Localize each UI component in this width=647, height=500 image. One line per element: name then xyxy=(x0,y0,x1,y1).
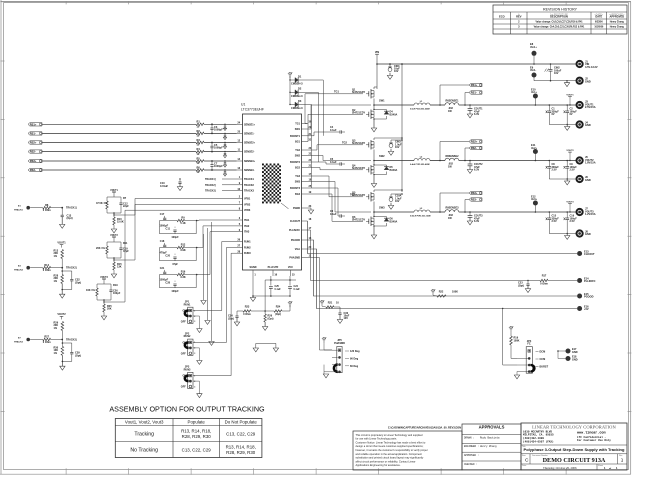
node flag RS2- xyxy=(28,150,42,153)
svg-text:6/23/06: 6/23/06 xyxy=(595,22,603,24)
svg-text:BG2: BG2 xyxy=(295,167,301,170)
svg-text:GND: GND xyxy=(585,123,591,127)
svg-text:1W: 1W xyxy=(448,110,452,113)
svg-text:0.1uF: 0.1uF xyxy=(330,161,337,164)
svg-text:www.linear.com: www.linear.com xyxy=(577,430,606,435)
svg-text:Vout1, Vout2, Vout3: Vout1, Vout2, Vout3 xyxy=(125,420,164,425)
svg-text:C:\CAD\WIN\CAPTURE\ARCHIVE\913: C:\CAD\WIN\CAPTURE\ARCHIVE\913A\913A_00_… xyxy=(388,426,461,430)
wire SW2 xyxy=(308,156,372,161)
svg-text:6.3V: 6.3V xyxy=(474,220,479,223)
turret E15 PGOOD xyxy=(577,294,582,299)
svg-text:however, it remains the custom: however, it remains the customer's respo… xyxy=(356,448,428,452)
node flag TRACK1 xyxy=(222,178,237,180)
svg-text:100pF: 100pF xyxy=(113,292,121,295)
title block disclaimer box xyxy=(353,431,462,470)
ground below Q6 xyxy=(373,226,375,235)
svg-text:D1: D1 xyxy=(298,74,302,78)
svg-text:Applications Engineering for a: Applications Engineering for assistance. xyxy=(356,463,401,467)
svg-text:0.1uF: 0.1uF xyxy=(294,288,301,291)
svg-text:2.5V: 2.5V xyxy=(552,220,557,223)
svg-text:R21: R21 xyxy=(328,301,333,304)
wire +5V to E16 xyxy=(308,249,578,309)
border frame outer xyxy=(0,0,2,474)
svg-text:0 Ohm: 0 Ohm xyxy=(43,340,52,344)
wire +5V line to JP4 xyxy=(503,309,517,366)
svg-text:1000pF: 1000pF xyxy=(214,127,223,131)
ground PGND xyxy=(308,210,313,214)
svg-text:+5V: +5V xyxy=(431,288,436,292)
svg-text:R19: R19 xyxy=(113,284,118,287)
resistor R26 (Opt) xyxy=(264,311,266,314)
wire sense bus RS1+ xyxy=(42,123,196,125)
svg-text:2.5V: 2.5V xyxy=(570,220,575,223)
svg-text:20K 1%: 20K 1% xyxy=(96,247,106,250)
svg-text:TRACK1: TRACK1 xyxy=(244,178,255,181)
wire GND row ch1 input xyxy=(534,80,577,82)
svg-text:Rev: Rev xyxy=(619,455,622,457)
svg-text:3.9K: 3.9K xyxy=(180,249,185,252)
svg-text:affect circuit performance or: affect circuit performance or reliabilit… xyxy=(356,459,416,463)
svg-text:VCC: VCC xyxy=(288,266,293,269)
revision history table xyxy=(493,5,627,34)
svg-text:Si4721ADY: Si4721ADY xyxy=(352,194,366,197)
wire output gnd row ch3 xyxy=(549,233,577,235)
svg-text:PLLIN/FC: PLLIN/FC xyxy=(289,229,300,232)
svg-text:(Opt): (Opt) xyxy=(75,353,81,357)
svg-text:0 Ohm: 0 Ohm xyxy=(43,208,52,212)
svg-text:ASSEMBLY OPTION FOR OUTPUT TRA: ASSEMBLY OPTION FOR OUTPUT TRACKING xyxy=(109,404,265,413)
capacitor C24 0.1uF xyxy=(288,286,292,288)
wire output gnd row ch2 xyxy=(549,178,577,180)
svg-text:+5V: +5V xyxy=(584,307,589,311)
resistor R8SENSE2 sense ch2 xyxy=(430,160,445,162)
wire sense bus RS3- xyxy=(42,169,196,171)
svg-text:VOUT2: VOUT2 xyxy=(566,150,574,152)
capacitor C30 10uF 10V xyxy=(334,306,340,308)
svg-text:FC: FC xyxy=(527,343,531,346)
svg-text:+5V: +5V xyxy=(509,325,514,329)
svg-text:Si4721CDY: Si4721CDY xyxy=(352,167,366,170)
svg-text:Vin1+: Vin1+ xyxy=(530,45,537,49)
svg-text:R28, R29, R30: R28, R29, R30 xyxy=(226,450,256,455)
svg-text:B340A: B340A xyxy=(390,220,398,223)
svg-text:R27: R27 xyxy=(44,335,49,339)
turret E9 Vin1- xyxy=(532,73,537,78)
svg-text:VOUT2: VOUT2 xyxy=(57,313,66,316)
svg-text:PHASMD: PHASMD xyxy=(334,342,345,345)
jack J1 VIN xyxy=(577,61,583,67)
svg-text:10K 1%: 10K 1% xyxy=(86,289,96,292)
jack J3 VOUT1 xyxy=(577,102,583,108)
jack J6 GND xyxy=(577,176,583,182)
svg-text:3: 3 xyxy=(194,353,195,355)
svg-text:RS1-: RS1- xyxy=(471,91,477,95)
svg-text:C13, C22, C29: C13, C22, C29 xyxy=(182,448,212,453)
diode D4 B340A ch1 xyxy=(386,110,388,112)
wire SW2 node xyxy=(373,150,375,161)
resistor R1 10 xyxy=(196,123,204,126)
label JP5 positions xyxy=(345,350,349,352)
svg-text:ECO: ECO xyxy=(499,14,505,18)
svg-text:1W: 1W xyxy=(448,217,452,220)
svg-text:2.5V/15A: 2.5V/15A xyxy=(585,105,596,109)
wire kelvin RS2- flag xyxy=(465,148,469,161)
svg-text:120 Deg: 120 Deg xyxy=(350,350,360,353)
ground below Q2 xyxy=(373,119,375,128)
turret E13 CLKOUT xyxy=(577,251,582,256)
svg-text:R16: R16 xyxy=(181,270,186,273)
svg-text:VIN: VIN xyxy=(375,50,379,54)
svg-text:LINEAR TECHNOLOGY CORPORATION: LINEAR TECHNOLOGY CORPORATION xyxy=(532,424,616,429)
title block approvals box xyxy=(462,424,521,470)
svg-text:0.01uF: 0.01uF xyxy=(160,184,169,188)
svg-text:0.56uH P1R1.033-163M: 0.56uH P1R1.033-163M xyxy=(410,215,431,217)
wire BOOST3 xyxy=(308,187,339,189)
svg-text:16V: 16V xyxy=(395,200,400,203)
svg-text:SENSE2+: SENSE2+ xyxy=(244,142,256,145)
resistor R24 (Opt) xyxy=(251,310,274,312)
svg-text:47pF: 47pF xyxy=(172,263,178,266)
svg-text:SGND: SGND xyxy=(249,266,256,269)
svg-text:PLLIN/FC: PLLIN/FC xyxy=(584,279,596,283)
svg-text:100pF: 100pF xyxy=(171,290,179,293)
jack J8 GND xyxy=(577,230,583,236)
svg-text:RUN1: RUN1 xyxy=(184,303,191,306)
svg-text:RS1+: RS1+ xyxy=(30,122,37,126)
svg-text:APPROVED :: APPROVED : xyxy=(464,454,479,457)
svg-text:R28, R29, R30: R28, R29, R30 xyxy=(182,434,212,439)
capacitor C34 (Opt) xyxy=(236,311,238,316)
svg-text:RUN1: RUN1 xyxy=(244,241,251,244)
svg-text:R12: R12 xyxy=(181,243,186,246)
wire sense bus RS3+ xyxy=(42,160,196,162)
svg-text:of: of xyxy=(609,468,611,470)
svg-text:TRACK3: TRACK3 xyxy=(14,341,24,344)
svg-text:DCM: DCM xyxy=(540,351,546,354)
svg-text:Si4721CDY: Si4721CDY xyxy=(352,112,366,115)
svg-text:100pF: 100pF xyxy=(171,236,179,239)
svg-text:BOOST3: BOOST3 xyxy=(290,187,301,190)
svg-text:CMDSH-3: CMDSH-3 xyxy=(291,106,303,110)
svg-text:(408)434-0507 (FAX): (408)434-0507 (FAX) xyxy=(523,439,554,443)
svg-text:90 Deg: 90 Deg xyxy=(350,358,359,361)
svg-text:C21: C21 xyxy=(160,267,165,270)
resistor R5 10 xyxy=(196,160,204,163)
svg-text:REVISION HISTORY: REVISION HISTORY xyxy=(543,7,578,11)
svg-text:RUN2: RUN2 xyxy=(244,246,251,249)
capacitor C18 470pF / resistor R12 3.9K / capacitor C20 47pF ITH2 network xyxy=(160,247,178,249)
svg-text:R8SENSE2: R8SENSE2 xyxy=(445,155,459,158)
svg-text:R6: R6 xyxy=(197,165,201,169)
svg-text:6.3V: 6.3V xyxy=(474,169,479,172)
svg-text:VOUT1: VOUT1 xyxy=(566,94,574,96)
label JP4 positions xyxy=(536,351,539,353)
wire BG2 xyxy=(308,168,364,170)
turret E8 Vin1+ xyxy=(532,51,537,56)
svg-text:PLLFLTR: PLLFLTR xyxy=(268,266,279,269)
ground below C34 xyxy=(236,318,238,323)
resistor R30 10K 1% xyxy=(61,340,63,347)
wire VCC down xyxy=(289,276,291,286)
svg-text:substitution and printed circu: substitution and printed circuit board l… xyxy=(356,456,425,460)
capacitor C8 330uF xyxy=(548,161,550,167)
svg-text:0.6uH PG41.053-665M: 0.6uH PG41.053-665M xyxy=(410,107,430,110)
svg-text:RS3-: RS3- xyxy=(30,168,36,172)
svg-text:RS2-: RS2- xyxy=(30,150,36,154)
node flag RS3+ xyxy=(28,159,42,162)
ground below C30 xyxy=(339,315,341,320)
transistor Q4 Si4721CDY bottom FET ch2 xyxy=(370,165,372,175)
turret E3 TRACK2 input xyxy=(26,266,30,270)
svg-text:Sheet: Sheet xyxy=(598,464,603,467)
svg-text:ON: ON xyxy=(182,310,186,313)
svg-text:16V: 16V xyxy=(395,146,400,149)
transistor Q6 Si4721CDY bottom FET ch3 xyxy=(370,217,372,227)
svg-text:ON: ON xyxy=(182,375,186,378)
capacitor C3 1000pF xyxy=(211,124,213,128)
svg-text:Vo1+: Vo1+ xyxy=(531,90,537,94)
svg-text:This circuit is proprietary to: This circuit is proprietary to Linear Te… xyxy=(356,433,423,437)
resistor R3 10 xyxy=(196,141,204,144)
turret E12 Vo3+ xyxy=(533,201,538,206)
wire BG3 xyxy=(308,194,364,221)
ground below R30 xyxy=(61,355,63,366)
svg-text:SENSE3+: SENSE3+ xyxy=(244,160,256,163)
svg-text:(Opt): (Opt) xyxy=(275,313,281,316)
svg-text:TRACK1]: TRACK1] xyxy=(205,178,216,181)
capacitor common-mode at C3 xyxy=(224,124,226,126)
svg-text:60 Deg: 60 Deg xyxy=(350,365,359,368)
svg-text:Populate: Populate xyxy=(188,420,206,425)
wire JP1 to RUN pin xyxy=(193,242,237,311)
svg-text:SW1: SW1 xyxy=(295,128,301,131)
svg-text:Value change: Ch4,Ch3,C21,C26,: Value change: Ch4,Ch3,C21,C26,R6,R12 & R… xyxy=(534,26,585,29)
svg-text:<APPROVED>: <APPROVED> xyxy=(609,14,625,17)
capacitor C22 (Opt) xyxy=(62,271,72,279)
turret E1 TRACK1 input xyxy=(26,206,30,210)
svg-text:1st PROTOTYPE: 1st PROTOTYPE xyxy=(550,14,568,17)
svg-text:VFB2: VFB2 xyxy=(244,203,251,206)
svg-text:TRACK2: TRACK2 xyxy=(244,184,255,187)
capacitor C23 (Opt) xyxy=(527,281,529,285)
svg-text:1000pF: 1000pF xyxy=(214,146,223,150)
wire cap bottoms xyxy=(253,295,290,297)
svg-text:6V: 6V xyxy=(570,113,573,116)
wire kelvin RS3- flag xyxy=(465,200,469,213)
ground at JP1 xyxy=(193,316,199,329)
svg-text:SW2: SW2 xyxy=(295,155,301,158)
wire TG3 xyxy=(308,176,364,197)
svg-text:C28: C28 xyxy=(165,282,170,285)
svg-text:R1: R1 xyxy=(197,120,201,124)
svg-text:2.5V: 2.5V xyxy=(552,169,557,172)
resistor R22 100K pullup xyxy=(437,295,446,297)
svg-text:ITH3: ITH3 xyxy=(244,231,250,234)
svg-text:RS2+: RS2+ xyxy=(471,140,478,144)
svg-text:Henry Zhang: Henry Zhang xyxy=(610,22,625,24)
wire SGND return 1 xyxy=(203,234,205,300)
wire kelvin RS3+ flag xyxy=(440,193,469,212)
node flag RS3- xyxy=(28,168,42,171)
U1 left pins xyxy=(237,123,243,125)
svg-text:0.1uF: 0.1uF xyxy=(330,129,337,132)
svg-text:R17: R17 xyxy=(542,275,547,278)
node flag TRACK3 xyxy=(222,190,237,192)
svg-text:BOOST2: BOOST2 xyxy=(290,161,301,164)
turret E18 GND xyxy=(566,356,571,361)
capacitor C25 0.1uF xyxy=(269,286,273,288)
node flag TRACK2 xyxy=(222,184,237,186)
resistor R28 20K 1% xyxy=(61,268,63,275)
capacitor C17 1000pF / resistor R9 5.1K / capacitor C11 100pF ITH1 network xyxy=(160,220,178,222)
svg-text:TG2: TG2 xyxy=(295,149,300,152)
svg-text:1.8V/15A: 1.8V/15A xyxy=(585,161,596,165)
wire BOOST1 xyxy=(308,135,315,137)
svg-text:BURST: BURST xyxy=(540,365,549,368)
wire VIN vertical feed xyxy=(376,64,378,89)
wire CLKOUT to E13 xyxy=(308,221,578,254)
svg-text:RS2+: RS2+ xyxy=(30,141,37,145)
svg-text:(Opt): (Opt) xyxy=(67,216,73,220)
svg-text:DRAWN :: DRAWN : xyxy=(464,436,475,439)
wire R19 to JP4 pin2 xyxy=(511,345,517,358)
svg-text:RUN3: RUN3 xyxy=(184,368,191,371)
svg-text:C20: C20 xyxy=(165,255,170,258)
svg-text:R9SENSE3: R9SENSE3 xyxy=(445,207,459,210)
svg-text:TRACK3]: TRACK3] xyxy=(66,339,77,342)
svg-text:<DATE>: <DATE> xyxy=(594,14,603,17)
capacitor C1 330uF xyxy=(548,105,550,111)
jack J2 GND input xyxy=(577,78,583,84)
svg-text:GND: GND xyxy=(572,351,578,354)
wire TG2 xyxy=(308,145,364,150)
svg-text:100K: 100K xyxy=(452,290,458,293)
svg-text:No Tracking: No Tracking xyxy=(130,448,158,454)
svg-text:Rudy Bautista: Rudy Bautista xyxy=(480,436,500,439)
svg-text:LTC Confidential -: LTC Confidential - xyxy=(577,435,606,439)
inductor L2 ch2 xyxy=(374,160,414,162)
op-amp U1 LTC3773EUHF controller xyxy=(243,114,302,270)
turret E11 Vo2+ xyxy=(533,149,538,154)
node flag RS2+ xyxy=(28,141,42,144)
svg-text:B340A: B340A xyxy=(390,113,398,116)
wire to R23 row xyxy=(264,280,266,311)
svg-text:RS3-: RS3- xyxy=(471,198,477,202)
svg-text:VFB3: VFB3 xyxy=(244,209,251,212)
svg-text:100K: 100K xyxy=(514,339,520,342)
svg-text:+5V: +5V xyxy=(320,299,325,303)
svg-text:(Opt): (Opt) xyxy=(268,317,274,320)
title block LTC box xyxy=(521,423,627,470)
turret E10 Vo1+ xyxy=(533,94,538,99)
capacitor C15 330uF xyxy=(548,212,550,218)
svg-text:R11: R11 xyxy=(123,242,128,245)
svg-text:D3: D3 xyxy=(298,99,302,103)
capacitor C19A 1.0uF ch3 xyxy=(390,194,392,197)
svg-text:(Opt): (Opt) xyxy=(75,280,81,284)
U1 bottom pins xyxy=(252,270,254,276)
resistor R23 0 Ohm xyxy=(237,310,243,312)
resistor R19 100K xyxy=(510,332,512,336)
capacitor COUT1 ch1 xyxy=(469,105,471,109)
ground tie bracket xyxy=(256,343,276,348)
svg-text:PGND: PGND xyxy=(293,207,300,210)
wire sense bus RS2- xyxy=(42,151,196,153)
svg-text:C18: C18 xyxy=(160,240,165,243)
svg-text:OFF: OFF xyxy=(181,320,186,323)
svg-text:CHECKED :: CHECKED : xyxy=(464,463,478,466)
svg-text:B340A: B340A xyxy=(390,169,398,172)
svg-text:GND: GND xyxy=(585,178,591,182)
svg-text:PGOOD: PGOOD xyxy=(584,295,594,299)
svg-text:DEMO CIRCUIT 913A: DEMO CIRCUIT 913A xyxy=(543,457,606,464)
wire VIN rail xyxy=(376,54,378,64)
svg-text:+5V: +5V xyxy=(288,71,293,75)
capacitor COUT2 ch2 xyxy=(469,161,471,165)
ground below R26 xyxy=(264,322,266,327)
capacitor CIN2 100uF 16V xyxy=(550,64,552,70)
svg-text:OFF: OFF xyxy=(181,352,186,355)
transistor Q2 Si4721CDY bottom FET ch1 xyxy=(370,110,372,120)
svg-text:Polyphase 3-Output Step-Down S: Polyphase 3-Output Step-Down Supply with… xyxy=(524,447,625,452)
ground below C13 xyxy=(61,217,63,225)
ground at JP3 xyxy=(193,381,199,394)
wire sense bus RS1- xyxy=(42,132,196,134)
capacitor boost C4 0.1uF xyxy=(313,132,315,136)
resistor R13 20K 1% xyxy=(61,250,64,259)
capacitor CIN1 10uF 16V xyxy=(389,64,391,67)
svg-text:TRACK3]: TRACK3] xyxy=(205,190,216,193)
svg-text:R2: R2 xyxy=(197,129,201,133)
svg-text:ITH2: ITH2 xyxy=(244,225,250,228)
svg-text:BG3: BG3 xyxy=(295,193,301,196)
capacitor C7 1000pF xyxy=(211,161,213,165)
svg-text:Date:: Date: xyxy=(522,464,527,467)
svg-text:PGOOD: PGOOD xyxy=(291,239,300,242)
svg-text:+5V: +5V xyxy=(322,336,327,340)
svg-text:TG1: TG1 xyxy=(334,90,340,94)
svg-text:TG1: TG1 xyxy=(295,123,300,126)
capacitor C5 1000pF xyxy=(211,143,213,147)
svg-text:Do Not Populate: Do Not Populate xyxy=(225,420,258,425)
svg-text:R22: R22 xyxy=(439,290,444,293)
diode D1 CMDSH-3 xyxy=(290,79,295,81)
wire D1 cathode to BOOST xyxy=(298,80,324,136)
svg-text:R24: R24 xyxy=(276,305,281,308)
svg-text:BG1: BG1 xyxy=(295,141,301,144)
capacitor CIN3 1.0uF ch2 xyxy=(390,140,392,143)
svg-text:1000pF: 1000pF xyxy=(214,164,223,168)
inductor L3 ch3 xyxy=(374,211,414,213)
wire PLLIN/FC to E14 xyxy=(308,230,541,281)
wire BOOST2 xyxy=(308,161,327,163)
svg-text:D2: D2 xyxy=(298,87,302,91)
capacitor common-mode at C7 xyxy=(224,161,226,163)
svg-text:SENSE1+: SENSE1+ xyxy=(244,123,256,126)
svg-text:C17: C17 xyxy=(160,213,165,216)
U1 exposed pad checker xyxy=(262,164,281,204)
capacitor C13 (Opt) xyxy=(61,208,63,216)
wire SW1 xyxy=(308,105,372,129)
header JP5 PHASMD xyxy=(337,347,342,373)
svg-text:Value change: Ch2,Ch3,C27,C26,: Value change: Ch2,Ch3,C27,C26,R16 & R41 xyxy=(535,21,583,24)
svg-text:R14: R14 xyxy=(44,263,49,267)
svg-text:design a circuit that meets cu: design a circuit that meets customer-sup… xyxy=(356,444,424,448)
svg-text:OFF: OFF xyxy=(181,386,186,389)
wire D2 cathode to BOOST xyxy=(298,92,319,162)
svg-text:TRACK1: TRACK1 xyxy=(14,209,24,212)
wire PGOOD to E15 xyxy=(308,240,578,296)
